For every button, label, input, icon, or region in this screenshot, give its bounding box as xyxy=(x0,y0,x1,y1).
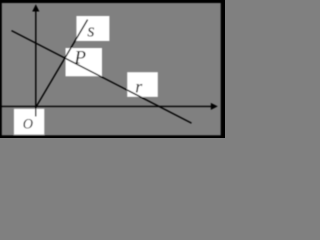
label box r xyxy=(127,72,158,97)
y-axis shaft xyxy=(35,10,37,117)
frame border left xyxy=(0,0,2,140)
svg-text:r: r xyxy=(135,77,143,97)
svg-text:P: P xyxy=(73,48,86,69)
frame border right xyxy=(221,0,227,140)
svg-text:O: O xyxy=(23,117,33,133)
x-axis arrowhead xyxy=(211,103,218,110)
frame border bottom xyxy=(0,135,227,140)
label box s xyxy=(76,16,109,41)
y-axis arrowhead xyxy=(32,4,39,11)
frame border top xyxy=(0,0,227,3)
x-axis shaft xyxy=(0,105,213,107)
label box O xyxy=(14,109,44,135)
line r xyxy=(12,31,192,124)
svg-text:s: s xyxy=(87,21,94,42)
line s xyxy=(36,20,87,107)
label box P xyxy=(66,48,103,76)
